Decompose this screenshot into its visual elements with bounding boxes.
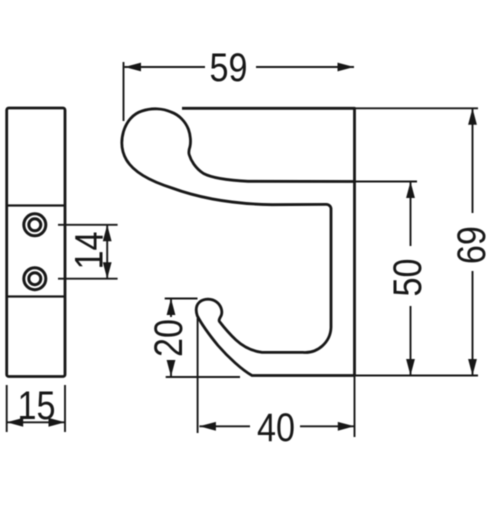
dimension 59 left extension line — [123, 62, 125, 121]
plate divider line upper — [7, 204, 65, 206]
top edge extension line toward 69 — [355, 107, 479, 109]
dimension 59 line right segment — [256, 66, 354, 68]
svg-text:15: 15 — [18, 384, 56, 428]
dimension 14 lower extension line — [58, 278, 118, 280]
bottom edge extension line toward 69 — [355, 375, 479, 377]
plate divider line lower — [7, 295, 65, 297]
dimension 59 line left segment — [125, 66, 206, 68]
mounting plate side view outline — [7, 108, 65, 377]
screw hole lower inner ring — [29, 273, 41, 285]
dimension 15 right extension line — [64, 385, 66, 432]
dimension 59 left arrowhead — [125, 63, 142, 72]
dimension 69 top arrowhead — [468, 108, 477, 125]
dimension 69 bottom arrowhead — [468, 359, 477, 376]
dimension 20 top extension line — [165, 298, 198, 300]
dimension 20 top arrowhead — [167, 299, 176, 316]
dimension 40 left extension line — [197, 318, 199, 433]
dimension 69 line lower segment — [472, 271, 474, 376]
dimension 50 bottom arrowhead — [406, 359, 415, 376]
dimension 40 right arrowhead — [338, 422, 355, 431]
dimension 59 right arrowhead — [338, 63, 355, 72]
inner height extension line toward 50 — [355, 181, 418, 183]
dimension 40 line right segment — [300, 425, 354, 427]
dimension 14 bottom arrowhead — [103, 262, 112, 279]
dimension 15 right arrowhead — [49, 418, 66, 427]
dimension 40 line left segment — [199, 425, 250, 427]
screw hole upper inner ring — [29, 219, 41, 231]
right wall extension down toward 40 — [354, 376, 356, 438]
svg-text:40: 40 — [257, 406, 295, 450]
dimension 14 line — [106, 225, 108, 279]
svg-text:20: 20 — [147, 319, 191, 357]
dimension 69 line upper segment — [472, 108, 474, 213]
dimension 15 left extension line — [6, 385, 8, 432]
svg-text:59: 59 — [210, 46, 248, 90]
screw hole lower outer ring — [24, 268, 46, 290]
dimension 14 upper extension line — [58, 224, 118, 226]
dimension 50 top arrowhead — [406, 182, 415, 199]
dimension 40 left arrowhead — [199, 422, 216, 431]
dimension 15 line — [7, 421, 65, 423]
dimension 14 top arrowhead — [103, 225, 112, 242]
dimension 15 left arrowhead — [7, 418, 24, 427]
dimension 20 line lower segment — [170, 361, 172, 377]
dimension 50 line upper segment — [410, 182, 412, 247]
dimension 20 line upper segment — [170, 299, 172, 318]
svg-text:14: 14 — [68, 232, 112, 270]
dimension 20 bottom arrowhead — [167, 360, 176, 377]
dimension 50 line lower segment — [410, 306, 412, 376]
hook profile main outline — [122, 108, 355, 375]
screw hole upper outer ring — [24, 214, 46, 236]
svg-text:50: 50 — [386, 259, 430, 297]
dimension 20 bottom extension line — [166, 376, 240, 378]
svg-text:69: 69 — [450, 226, 494, 264]
